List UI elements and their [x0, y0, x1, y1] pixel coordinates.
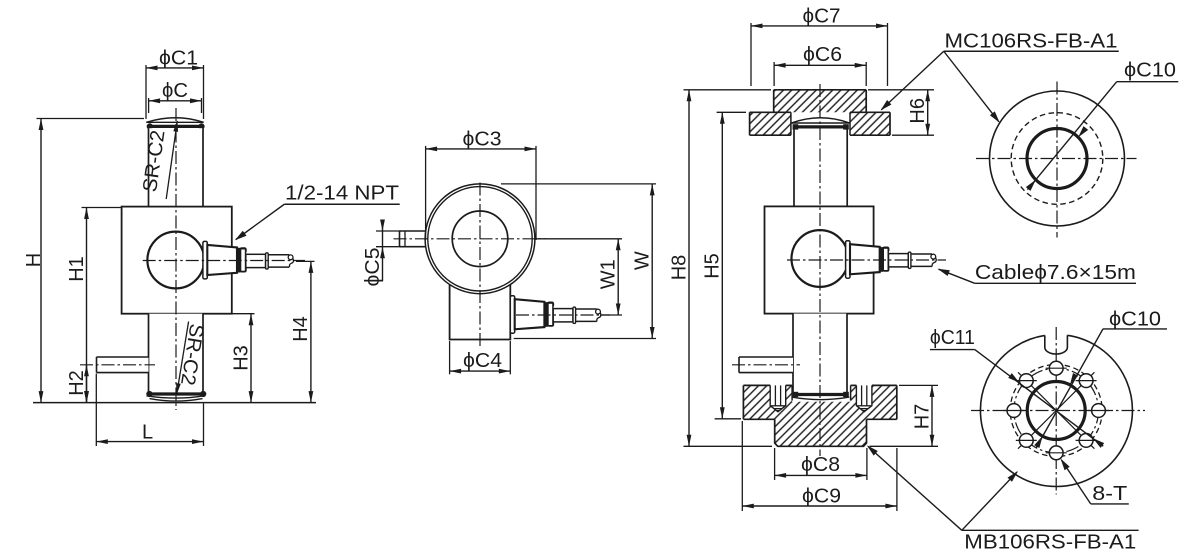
- node side pipe view2: [400, 230, 427, 232]
- dimension W: [501, 183, 656, 185]
- node outer circle view5: [980, 335, 1132, 486]
- dimension phiC7: [750, 23, 752, 86]
- svg-text:ϕC6: ϕC6: [803, 44, 842, 66]
- svg-text:H3: H3: [230, 345, 252, 371]
- wire crosshair view4: [976, 158, 1137, 160]
- dimension phiC6: [773, 62, 775, 86]
- wire upper column view1: [149, 128, 204, 206]
- label SR-C2 bottom: [177, 322, 189, 394]
- node outer circle view4: [990, 91, 1125, 226]
- svg-text:H5: H5: [702, 253, 724, 279]
- node screw hole right view3: [856, 385, 872, 411]
- dimension phiC9: [741, 421, 743, 511]
- node bottom loading cap view3: [795, 393, 846, 396]
- dimension H6: [868, 89, 934, 91]
- svg-text:W: W: [632, 251, 654, 270]
- dimension H: [37, 118, 145, 120]
- node bolt circle view5: [1014, 368, 1099, 453]
- node gauge circle view1: [147, 232, 204, 289]
- svg-text:ϕC10: ϕC10: [1109, 309, 1161, 331]
- dimension H2: [86, 365, 88, 403]
- svg-text:ϕC11: ϕC11: [930, 327, 975, 349]
- wire crosshair view5: [971, 410, 1145, 412]
- svg-text:ϕC8: ϕC8: [801, 454, 840, 476]
- dimension H5: [717, 111, 746, 113]
- svg-text:ϕC3: ϕC3: [463, 128, 502, 150]
- label 8-T: [1091, 503, 1129, 505]
- svg-text:H4: H4: [290, 316, 312, 342]
- dimension phiC3: [425, 146, 427, 240]
- node bore circle view2: [452, 211, 508, 267]
- svg-text:H8: H8: [668, 255, 690, 281]
- dimension phiC: [148, 98, 150, 113]
- svg-text:MB106RS-FB-A1: MB106RS-FB-A1: [964, 532, 1136, 554]
- label SR-C2 top: [166, 121, 177, 199]
- wire pipe centerline view1: [80, 364, 155, 366]
- wire pipe centerline view3: [732, 364, 800, 366]
- node gauge circle view3: [792, 230, 849, 287]
- node thread circle view5: [1027, 382, 1085, 440]
- dimension W1: [535, 238, 622, 240]
- node top mounting block MC106: [750, 90, 890, 135]
- svg-text:Cableϕ7.6×15m: Cableϕ7.6×15m: [975, 262, 1136, 284]
- label 1/2-14 NPT: [284, 203, 399, 205]
- node side pipe view3: [739, 357, 793, 373]
- dimension H1: [82, 207, 122, 209]
- dimension L: [95, 374, 97, 446]
- dimension phiC10 view4: [1117, 81, 1179, 83]
- svg-text:ϕC7: ϕC7: [803, 5, 841, 27]
- node outer circle view2: [425, 184, 535, 294]
- label cable spec: [975, 282, 1136, 284]
- label MB106RS-FB-A1: [962, 529, 1139, 531]
- dimension phiC4: [449, 341, 451, 374]
- wire lower column view1: [149, 314, 204, 392]
- node thread circle view4: [1027, 129, 1087, 189]
- dimension H3: [232, 313, 255, 315]
- svg-text:H6: H6: [907, 98, 929, 124]
- wire centerline horizontal view1: [143, 260, 305, 262]
- wire centerline vertical view2: [479, 183, 481, 347]
- node bottom mounting block MB106: [743, 385, 896, 446]
- svg-text:H7: H7: [911, 404, 933, 430]
- svg-text:1/2-14 NPT: 1/2-14 NPT: [285, 183, 399, 205]
- connector cable gland view3: [846, 241, 937, 278]
- node body view3: [765, 206, 874, 313]
- node body view1: [122, 207, 232, 314]
- node screw hole left view3: [770, 385, 786, 411]
- wire centerline horizontal view2: [394, 238, 547, 240]
- dimension phiC5: [376, 230, 401, 232]
- node bolt dashed circle view4: [1011, 113, 1103, 205]
- node bottom loading cap view1: [149, 392, 203, 395]
- node top loading cap view1: [146, 118, 203, 123]
- node bolt dashed circle view5: [1010, 365, 1102, 457]
- dimension phiC8: [774, 448, 776, 480]
- node ground line view1: [33, 402, 316, 404]
- node 8 tapped holes view5: [1049, 361, 1063, 375]
- svg-text:H2: H2: [66, 370, 88, 396]
- svg-text:MC106RS-FB-A1: MC106RS-FB-A1: [945, 30, 1118, 52]
- svg-text:W1: W1: [598, 259, 620, 289]
- dimension phiC10 view5: [1103, 328, 1167, 330]
- svg-text:ϕC9: ϕC9: [802, 485, 841, 507]
- dimension H4: [296, 260, 315, 262]
- svg-text:ϕC10: ϕC10: [1124, 59, 1176, 81]
- label MC106RS-FB-A1: [944, 50, 1119, 52]
- dimension H7: [899, 384, 938, 386]
- dimension H8: [684, 89, 772, 91]
- node boss view2: [450, 285, 511, 340]
- svg-text:L: L: [142, 422, 153, 444]
- svg-text:H1: H1: [66, 256, 88, 282]
- node top loading cap view3: [792, 118, 850, 123]
- wire centerline horizontal view3: [787, 259, 946, 261]
- wire lower column view3: [793, 314, 847, 393]
- connector cable gland view1: [203, 241, 294, 279]
- wire diagonal centerlines view5: [1018, 372, 1094, 448]
- dimension phiC11 view5: [930, 349, 975, 351]
- node cable notch view5: [1045, 335, 1068, 354]
- svg-text:H: H: [23, 253, 45, 267]
- node side pipe view1: [97, 357, 149, 373]
- dimension phiC1: [145, 65, 147, 119]
- svg-text:ϕC5: ϕC5: [362, 248, 384, 287]
- svg-text:ϕC4: ϕC4: [463, 350, 502, 372]
- wire cable centerline view2: [516, 314, 610, 316]
- wire centerline vertical view1: [175, 108, 177, 410]
- connector cable gland view2: [510, 296, 601, 334]
- svg-text:ϕC1: ϕC1: [159, 47, 198, 69]
- wire upper column view3: [794, 129, 847, 207]
- svg-text:8-T: 8-T: [1092, 483, 1127, 505]
- svg-text:ϕC: ϕC: [162, 80, 188, 102]
- wire centerline vertical view3: [819, 84, 821, 456]
